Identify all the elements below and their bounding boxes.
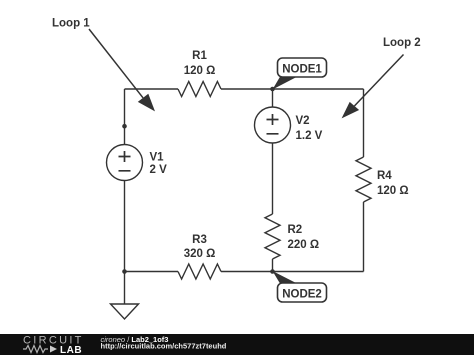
junction dot NODE2 [270, 269, 275, 274]
wire bottom left (corner to R3) [125, 271, 179, 273]
label V1 [150, 151, 168, 176]
annotation Loop 2 [342, 37, 421, 118]
wire ground stem [124, 272, 126, 305]
svg-text:NODE1: NODE1 [282, 63, 322, 75]
wire left lower (V1 to bottom corner) [124, 181, 126, 272]
wire middle lower (R2 to bottom) [272, 259, 274, 272]
svg-text:NODE2: NODE2 [282, 288, 322, 300]
voltage source V1 [107, 145, 143, 181]
junction dot above V1 [122, 124, 127, 129]
junction dot bottom-left corner [122, 269, 127, 274]
svg-text:320 Ω: 320 Ω [184, 248, 216, 260]
CircuitLab logo arrow [50, 346, 57, 353]
resistor R4 [356, 157, 371, 202]
wire middle (V2 to R2) [272, 143, 274, 214]
svg-text:R1: R1 [192, 50, 207, 62]
CircuitLab logo wordmark LAB [60, 345, 82, 355]
label R1 [184, 50, 216, 77]
svg-text:Loop 1: Loop 1 [52, 18, 90, 30]
svg-text:V1: V1 [150, 151, 165, 163]
svg-text:220 Ω: 220 Ω [288, 239, 320, 251]
node NODE2 [273, 271, 327, 302]
svg-text:http://circuitlab.com/ch577zt7: http://circuitlab.com/ch577zt7teuhd [101, 342, 227, 351]
wire left upper (corner to V1) [124, 89, 126, 145]
svg-text:2 V: 2 V [150, 164, 168, 176]
label R4 [377, 170, 409, 197]
svg-text:Loop 2: Loop 2 [383, 37, 421, 49]
resistor R3 [178, 264, 221, 279]
ground [111, 304, 139, 319]
junction dot NODE1 [270, 87, 275, 92]
svg-text:120 Ω: 120 Ω [184, 65, 216, 77]
annotation Loop 1 [52, 18, 155, 112]
svg-text:V2: V2 [296, 115, 310, 127]
label R3 [184, 234, 216, 260]
svg-text:R4: R4 [377, 170, 392, 182]
node NODE1 [273, 58, 327, 90]
wire bottom right (R3 to corner) [221, 271, 364, 273]
wire right upper (corner to R4) [363, 89, 365, 157]
footer bar [0, 334, 474, 355]
svg-text:R3: R3 [192, 234, 207, 246]
voltage source V2 [255, 107, 291, 143]
wire top left (corner to R1) [125, 88, 179, 90]
footer text author / title [101, 335, 169, 344]
CircuitLab logo resistor zigzag [23, 346, 48, 353]
label V2 [296, 115, 323, 142]
wire right lower (R4 to bottom corner) [363, 202, 365, 272]
svg-text:R2: R2 [288, 224, 303, 236]
wire top right (R1 to right corner) [221, 88, 364, 90]
wire middle upper (top wire to V2) [272, 89, 274, 107]
resistor R2 [265, 214, 280, 259]
svg-text:LAB: LAB [60, 345, 82, 355]
svg-text:120 Ω: 120 Ω [377, 185, 409, 197]
resistor R1 [178, 82, 221, 97]
label R2 [288, 224, 320, 251]
svg-text:1.2 V: 1.2 V [296, 130, 323, 142]
CircuitLab logo wordmark CIRCUIT [23, 335, 83, 347]
footer text url [101, 342, 227, 351]
